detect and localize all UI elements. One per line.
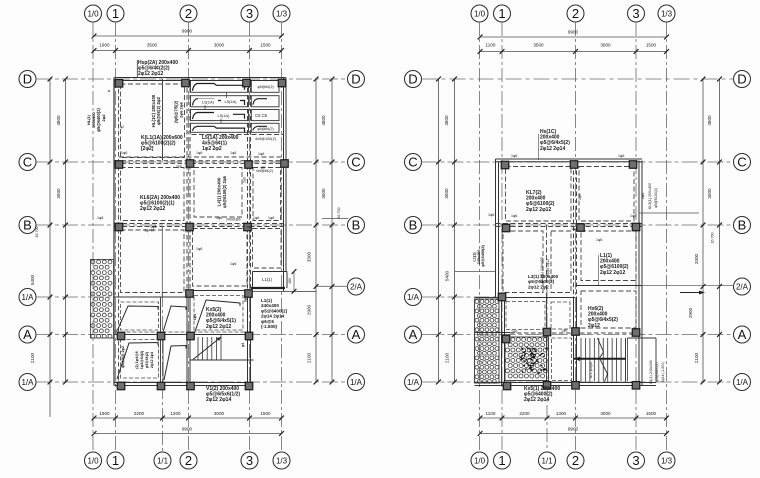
svg-text:1/A: 1/A <box>736 378 749 387</box>
svg-text:C: C <box>408 155 417 170</box>
right plan: axis 1/1 interior wall <box>546 225 548 386</box>
left plan: room B-1/A/1-2 dashed beam outline <box>121 230 185 293</box>
right plan: beam note Kx5(1) below <box>524 386 560 403</box>
left plan: slab strips right column <box>251 81 279 133</box>
svg-text:1/1: 1/1 <box>157 456 169 465</box>
svg-text:4x5@6¢(2): 4x5@6¢(2) <box>256 169 273 173</box>
svg-text:1φ6: 1φ6 <box>511 330 517 334</box>
svg-text:2φ12: 2φ12 <box>588 323 600 329</box>
svg-text:B: B <box>23 218 32 233</box>
svg-text:1900: 1900 <box>99 411 110 416</box>
svg-text:1: 1 <box>498 6 505 21</box>
left plan: axis 3 wall (dashed above, solid below) <box>248 81 251 386</box>
svg-text:1φ6: 1φ6 <box>511 214 517 218</box>
svg-text:1φ4: 1φ4 <box>193 314 197 320</box>
left plan: stair landing beam <box>190 359 254 361</box>
left plan: slab reinforcement strips between axes 2-3 <box>191 81 249 133</box>
right plan: small 1φ6 column tags <box>488 154 636 334</box>
svg-text:1φ6: 1φ6 <box>216 216 222 220</box>
right plan: beam note Hx6(2) <box>588 306 618 329</box>
svg-text:1: 1 <box>112 453 119 468</box>
left plan: axis B beam (dashed) <box>115 224 284 227</box>
left plan: axis 1/A beam with step to 2/A <box>115 291 251 298</box>
svg-text:φ6: φ6 <box>261 166 265 170</box>
svg-text:L1(1): L1(1) <box>262 277 272 282</box>
right plan: right perimeter wall (axis 3) <box>639 161 642 386</box>
svg-text:2φ12 2φ14: 2φ12 2φ14 <box>524 397 549 403</box>
left plan: strip label white boxes <box>198 99 218 106</box>
svg-text:D: D <box>737 72 746 87</box>
right plan: staircase with landing bay and direction arrow <box>574 338 656 382</box>
left plan: small balcony room L1(1) with thick edge <box>251 272 317 292</box>
svg-text:C: C <box>351 155 360 170</box>
left plan: bottom perimeter beam (axis 1/A bottom) <box>115 383 254 386</box>
svg-text:D: D <box>23 72 32 87</box>
svg-text:2900: 2900 <box>307 304 312 315</box>
svg-text:2/A: 2/A <box>736 282 749 291</box>
svg-text:1500: 1500 <box>646 43 657 48</box>
svg-text:φ5@6400(2): φ5@6400(2) <box>655 362 659 381</box>
svg-text:4800: 4800 <box>321 115 326 126</box>
left plan: right axis circles <box>348 71 365 391</box>
svg-text:1/A: 1/A <box>21 378 34 387</box>
left plan: beam note L5(1A) <box>202 135 239 152</box>
left plan: rotated rebar notes in lower rooms <box>121 296 248 369</box>
left plan: beam note Hsp(2A) <box>137 60 178 78</box>
svg-text:[2φ2]: [2φ2] <box>141 146 154 152</box>
svg-text:3: 3 <box>246 6 253 21</box>
svg-text:1φ6: 1φ6 <box>246 225 252 229</box>
svg-text:φ5@6 2φ12: φ5@6 2φ12 <box>546 259 550 277</box>
right plan: axis 1/A beam <box>475 297 576 299</box>
svg-text:3000: 3000 <box>600 43 611 48</box>
svg-text:1100: 1100 <box>486 43 496 48</box>
left plan: small 480 dimension at balcony <box>288 269 296 294</box>
svg-text:3000: 3000 <box>56 188 61 199</box>
svg-text:1/A: 1/A <box>350 378 363 387</box>
right plan: axis B beam (dashed) <box>496 224 643 227</box>
left plan: room C-B/2-3 dashed beam outline <box>194 168 242 218</box>
left plan: right perimeter wall upper (axis 1/3) <box>284 78 287 292</box>
right plan: hatched infill below axis A (dots+scribble) <box>505 337 549 381</box>
left plan: staircase with up arrow <box>193 335 221 361</box>
svg-text:1100: 1100 <box>486 411 496 416</box>
right plan: rotated note KL2 near axis 1/1 <box>540 257 550 283</box>
left plan: top axis circles 1/0,1,2,3,1/3 <box>85 5 291 22</box>
svg-text:9900: 9900 <box>182 427 193 432</box>
svg-text:1/3: 1/3 <box>276 456 288 465</box>
right plan: room B-2/A dashed beam outline <box>581 231 636 281</box>
svg-text:2φ4¢0: 2φ4¢0 <box>145 229 155 233</box>
svg-text:2φ2: 2φ2 <box>101 114 106 122</box>
svg-text:1φ6: 1φ6 <box>630 214 636 218</box>
left plan: room A-bottom dashed beam outline <box>121 340 159 379</box>
svg-text:3000: 3000 <box>600 411 611 416</box>
right plan: left axis circles <box>405 71 422 391</box>
svg-text:2100: 2100 <box>307 352 312 363</box>
svg-text:1φ6: 1φ6 <box>488 213 494 217</box>
right plan: rotated stair-side note <box>649 360 665 383</box>
svg-text:L5(1A): L5(1A) <box>224 99 237 104</box>
svg-text:L1(1) 240x400: L1(1) 240x400 <box>649 360 653 383</box>
left plan: rotated note on axis1 wall <box>86 107 106 131</box>
left plan: dashed beam line below slab strips <box>192 134 284 136</box>
svg-text:9900: 9900 <box>568 427 579 432</box>
svg-text:1300: 1300 <box>556 411 567 416</box>
svg-text:2100: 2100 <box>694 352 699 363</box>
svg-text:D: D <box>351 72 360 87</box>
svg-text:1φ6: 1φ6 <box>196 247 202 251</box>
left plan: strip label leader lines <box>205 92 227 123</box>
right plan: 2/A arrow pointer <box>680 291 705 295</box>
svg-text:1/A: 1/A <box>407 293 420 302</box>
svg-text:4800: 4800 <box>707 115 712 126</box>
right plan: beam note L3(1) <box>528 274 559 289</box>
svg-text:1900: 1900 <box>99 43 110 48</box>
svg-text:2: 2 <box>185 453 192 468</box>
right plan: right vertical dimensions <box>688 77 722 385</box>
svg-text:B: B <box>738 218 747 233</box>
right plan: axis A beam <box>475 332 643 335</box>
svg-text:2100: 2100 <box>445 352 450 363</box>
svg-text:φ4@5(2) 2φ2: φ4@5(2) 2φ2 <box>121 346 125 368</box>
left plan: rotated note HL(1C) <box>151 94 161 127</box>
right plan: rooms B-1/A dashed beam outlines <box>503 231 571 293</box>
svg-text:Ia: Ia <box>108 89 111 93</box>
svg-text:3000: 3000 <box>214 411 225 416</box>
left plan: room C-B/3-1/3 dashed beam outline <box>253 168 281 221</box>
svg-text:C: C <box>23 155 32 170</box>
svg-text:A: A <box>409 327 418 342</box>
left plan: axis A beam <box>115 332 251 335</box>
svg-text:(2) 1φ4@6: (2) 1φ4@6 <box>135 351 139 368</box>
svg-text:2: 2 <box>572 453 579 468</box>
right plan: rotated note KL5(1) outside right wall <box>639 183 699 213</box>
svg-text:1/3: 1/3 <box>661 9 673 18</box>
svg-text:1φ2 2φ2: 1φ2 2φ2 <box>202 146 222 152</box>
right plan: rotated tags 2φ6 beside walls <box>578 193 645 200</box>
right plan: bottom perimeter beam <box>475 383 657 386</box>
left plan: axis 2 wall (dashed above, solid below) <box>187 81 190 386</box>
svg-text:φ2: φ2 <box>120 125 124 129</box>
svg-text:3000: 3000 <box>214 43 225 48</box>
svg-text:φ4: φ4 <box>241 343 245 347</box>
svg-text:5400: 5400 <box>445 270 450 281</box>
svg-text:5400: 5400 <box>30 274 35 285</box>
svg-text:2φ12 2φ14: 2φ12 2φ14 <box>540 146 565 152</box>
svg-text:2φ6: 2φ6 <box>641 193 645 199</box>
right plan: rooms 1/A-A dashed beam outlines <box>506 302 572 381</box>
left plan: beam note KL1(1A) <box>141 135 183 152</box>
left plan: bent slab reinforcement polylines <box>116 300 240 380</box>
svg-text:L5(1A): L5(1A) <box>217 113 230 118</box>
svg-text:1/1: 1/1 <box>541 456 553 465</box>
right plan: room 2/A-A dashed beam outline <box>581 291 636 328</box>
svg-text:2φ6: 2φ6 <box>578 194 582 200</box>
svg-text:D: D <box>408 72 417 87</box>
svg-text:1φ6: 1φ6 <box>230 262 236 266</box>
svg-text:A: A <box>352 327 361 342</box>
svg-text:16.700: 16.700 <box>337 208 341 219</box>
svg-text:C: C <box>737 155 746 170</box>
svg-text:φ5@6¢(2) 2φ2: φ5@6¢(2) 2φ2 <box>156 96 161 125</box>
svg-text:2200: 2200 <box>519 411 530 416</box>
svg-text:2φ12 2φ2: 2φ12 2φ2 <box>528 284 549 289</box>
left plan: left perimeter wall (axis 1) <box>114 78 119 386</box>
svg-text:4x5@100(2): 4x5@100(2) <box>255 137 277 141</box>
svg-text:1φ6: 1φ6 <box>258 152 264 156</box>
right plan: horizontal axis grid lines <box>422 79 734 382</box>
right plan: top perimeter beam (axis C) <box>496 159 643 162</box>
svg-text:1φ6: 1φ6 <box>253 216 259 220</box>
left plan: room C-B/1-2 dashed beam outline <box>121 168 185 221</box>
left plan: concrete columns (filled) <box>115 79 288 390</box>
svg-text:4800: 4800 <box>56 115 61 126</box>
svg-text:1φ6: 1φ6 <box>230 151 236 155</box>
left plan: rotated note axis2 upper <box>174 100 184 123</box>
svg-text:2φ12 2φ12: 2φ12 2φ12 <box>138 71 163 77</box>
left plan: axis C beam (dashed) <box>115 161 287 164</box>
svg-text:1φ6: 1φ6 <box>196 151 202 155</box>
svg-text:2100: 2100 <box>30 352 35 363</box>
svg-text:AT1 φ5@6: AT1 φ5@6 <box>589 362 593 378</box>
svg-text:1: 1 <box>498 453 505 468</box>
right plan: bottom dimension chain <box>478 411 669 436</box>
left plan: elevation labels 16.700 <box>35 208 348 238</box>
right plan: axis 2 wall (dashed above, solid below) <box>574 164 577 386</box>
svg-text:A: A <box>738 327 747 342</box>
svg-text:9900: 9900 <box>182 29 193 34</box>
svg-text:C5 C5: C5 C5 <box>255 113 268 118</box>
right plan: bottom axis circles <box>471 452 675 469</box>
left plan: left vertical dimensions 4800,3000,5400,2100 <box>30 77 68 417</box>
left plan: left axis circles D,C,B,1/A,A,1/A <box>19 71 36 391</box>
left plan: beam note KL6(2A) <box>140 195 180 212</box>
left plan: bottom axis circles <box>85 452 291 469</box>
svg-text:φ5@6100(2): φ5@6100(2) <box>654 188 658 208</box>
svg-text:1φ6: 1φ6 <box>511 154 517 158</box>
svg-text:1/3: 1/3 <box>276 9 288 18</box>
svg-text:1/0: 1/0 <box>474 9 486 18</box>
svg-text:φ5@6400(2): φ5@6400(2) <box>481 244 485 266</box>
svg-text:9900: 9900 <box>568 30 579 35</box>
svg-text:3500: 3500 <box>147 43 158 48</box>
left plan: rooms 1/A-A dashed beam outlines <box>121 296 244 331</box>
svg-text:2: 2 <box>185 6 192 21</box>
right plan: room C-B/2-3 dashed beam outline <box>579 167 634 222</box>
svg-text:2200: 2200 <box>134 411 145 416</box>
svg-text:2φ12 2φ12: 2φ12 2φ12 <box>140 206 165 212</box>
svg-text:1φ6: 1φ6 <box>571 227 577 231</box>
svg-text:2φ0: 2φ0 <box>244 296 248 302</box>
svg-text:1/0: 1/0 <box>87 9 99 18</box>
right plan: left perimeter wall upper <box>496 159 499 298</box>
svg-text:KL2(1) 240x400: KL2(1) 240x400 <box>540 257 544 283</box>
svg-text:1φ4@64(2): 1φ4@64(2) <box>140 350 144 369</box>
svg-text:φ5@6¢(2): φ5@6¢(2) <box>145 351 149 368</box>
left plan: slab strip labels L5(1A) <box>202 99 237 118</box>
right plan: beam note KL7(2) <box>526 190 555 213</box>
right plan: right axis circles <box>734 71 751 391</box>
left plan: horizontal axis grid lines <box>36 79 348 382</box>
svg-text:3000: 3000 <box>321 188 326 199</box>
svg-text:3: 3 <box>632 6 639 21</box>
svg-text:1/A: 1/A <box>21 293 34 302</box>
left plan: note 4x5@100(2) <box>255 137 277 141</box>
svg-text:1/0: 1/0 <box>87 456 99 465</box>
left plan: top perimeter beam (axis D) <box>115 78 286 81</box>
svg-text:1φ6: 1φ6 <box>618 154 624 158</box>
right plan: rotated notes left margin <box>455 244 496 271</box>
svg-text:3300: 3300 <box>307 251 312 262</box>
svg-text:480: 480 <box>288 278 292 284</box>
svg-text:2φ6 2φ6: 2φ6 2φ6 <box>179 101 184 118</box>
right plan: beam note L1(1) mid <box>599 253 629 285</box>
svg-text:B: B <box>352 218 361 233</box>
svg-text:2: 2 <box>572 6 579 21</box>
svg-text:2φ12 2φ12: 2φ12 2φ12 <box>600 270 625 276</box>
svg-text:2φ6: 2φ6 <box>243 177 247 183</box>
right plan: top axis circles <box>471 5 675 22</box>
right plan: beam note Hs(1C) above axis C <box>539 129 571 160</box>
svg-text:1φ6: 1φ6 <box>561 329 567 333</box>
left plan: right vertical dimensions 4800,3000,3300,2900,2100 <box>307 77 335 385</box>
svg-text:2φ14 (-1.600): 2φ14 (-1.600) <box>661 362 665 383</box>
left plan: bottom dimension chain 1900,2200,1200,3000,1500 / 9900 <box>92 411 284 436</box>
svg-text:1φ6: 1φ6 <box>121 151 127 155</box>
svg-text:3: 3 <box>246 453 253 468</box>
right plan: concrete columns (filled) <box>498 161 640 390</box>
svg-text:2φ6: 2φ6 <box>176 165 182 169</box>
left plan: room D-C/1-2 dashed beam outline <box>121 84 185 158</box>
left plan: balcony note L1(1) <box>261 298 288 329</box>
svg-text:16.700: 16.700 <box>711 233 715 244</box>
right plan: rotated stair label <box>589 362 593 378</box>
left plan: small 1φ6 column tags <box>97 89 274 266</box>
svg-text:1/3: 1/3 <box>661 456 673 465</box>
svg-text:1φ6: 1φ6 <box>97 216 103 220</box>
left plan: top dimension chain 9900 / 1900,3500,3000,1500 <box>92 29 284 53</box>
right plan: axis 2/A beam <box>576 285 643 287</box>
right plan: hatched masonry wall left (dot pattern) <box>475 299 500 383</box>
svg-text:4800: 4800 <box>444 115 449 126</box>
left plan: room B/3-1/3 dashed beam outline <box>253 229 282 269</box>
svg-text:1500: 1500 <box>260 43 271 48</box>
svg-text:1500: 1500 <box>260 411 271 416</box>
left plan: room B-2/A/2-3 dashed beam outline <box>193 229 248 287</box>
svg-text:2900: 2900 <box>688 307 693 318</box>
left plan: beam note V1(2) <box>206 386 240 404</box>
left plan: vertical axis grid lines <box>93 22 282 452</box>
right plan: top dimension chain <box>478 30 669 54</box>
svg-text:(-1.600): (-1.600) <box>261 324 278 329</box>
svg-text:16.700: 16.700 <box>35 227 39 238</box>
svg-text:L4(1) 200x400: L4(1) 200x400 <box>217 177 222 206</box>
right plan: axis 1 wall lower <box>502 298 505 386</box>
svg-text:3300: 3300 <box>694 253 699 264</box>
svg-text:2φ12 2φ12: 2φ12 2φ12 <box>206 324 231 330</box>
left plan: rotated note L4(1) <box>217 175 228 208</box>
svg-text:1200: 1200 <box>170 411 181 416</box>
svg-text:240x5@6: 240x5@6 <box>226 218 241 222</box>
svg-text:2/A: 2/A <box>350 282 363 291</box>
svg-text:KL5(1) 200x400: KL5(1) 200x400 <box>648 183 652 209</box>
left plan: axis 1/1 interior wall <box>161 79 164 386</box>
svg-text:3000: 3000 <box>707 188 712 199</box>
left plan: beam note Kx5(2) <box>206 307 236 330</box>
left plan: dashed beam line above axis C <box>119 156 284 158</box>
svg-text:φ5@6¢(2): φ5@6¢(2) <box>257 127 273 131</box>
svg-text:L5(1A): L5(1A) <box>202 100 215 105</box>
svg-text:φ5@6100(2) 2φ6: φ5@6100(2) 2φ6 <box>222 175 227 208</box>
right plan: vertical axis grid lines <box>480 22 667 452</box>
svg-text:2φ12 2φ4: 2φ12 2φ4 <box>150 352 154 368</box>
svg-text:1φ6: 1φ6 <box>268 216 274 220</box>
svg-text:1500: 1500 <box>646 411 657 416</box>
svg-text:2φ12 2φ12: 2φ12 2φ12 <box>526 207 551 213</box>
right plan: left vertical dimensions <box>436 77 457 385</box>
svg-text:3000: 3000 <box>444 188 449 199</box>
svg-text:3: 3 <box>632 453 639 468</box>
svg-text:1/0: 1/0 <box>474 456 486 465</box>
svg-text:1: 1 <box>112 6 119 21</box>
left plan: hatched masonry wall (dot pattern) <box>90 259 113 338</box>
svg-text:1/A: 1/A <box>407 378 420 387</box>
svg-text:1φ6: 1φ6 <box>596 238 602 242</box>
svg-text:A: A <box>23 327 32 342</box>
right plan: elevation label 16.700 <box>711 233 715 244</box>
svg-text:3500: 3500 <box>533 43 544 48</box>
right plan: room C-B/1-2 dashed beam outline <box>506 167 572 222</box>
svg-text:φ5@6¢(2): φ5@6¢(2) <box>257 85 273 89</box>
svg-text:2φ12 2φ14: 2φ12 2φ14 <box>206 397 231 403</box>
svg-text:B: B <box>409 218 418 233</box>
